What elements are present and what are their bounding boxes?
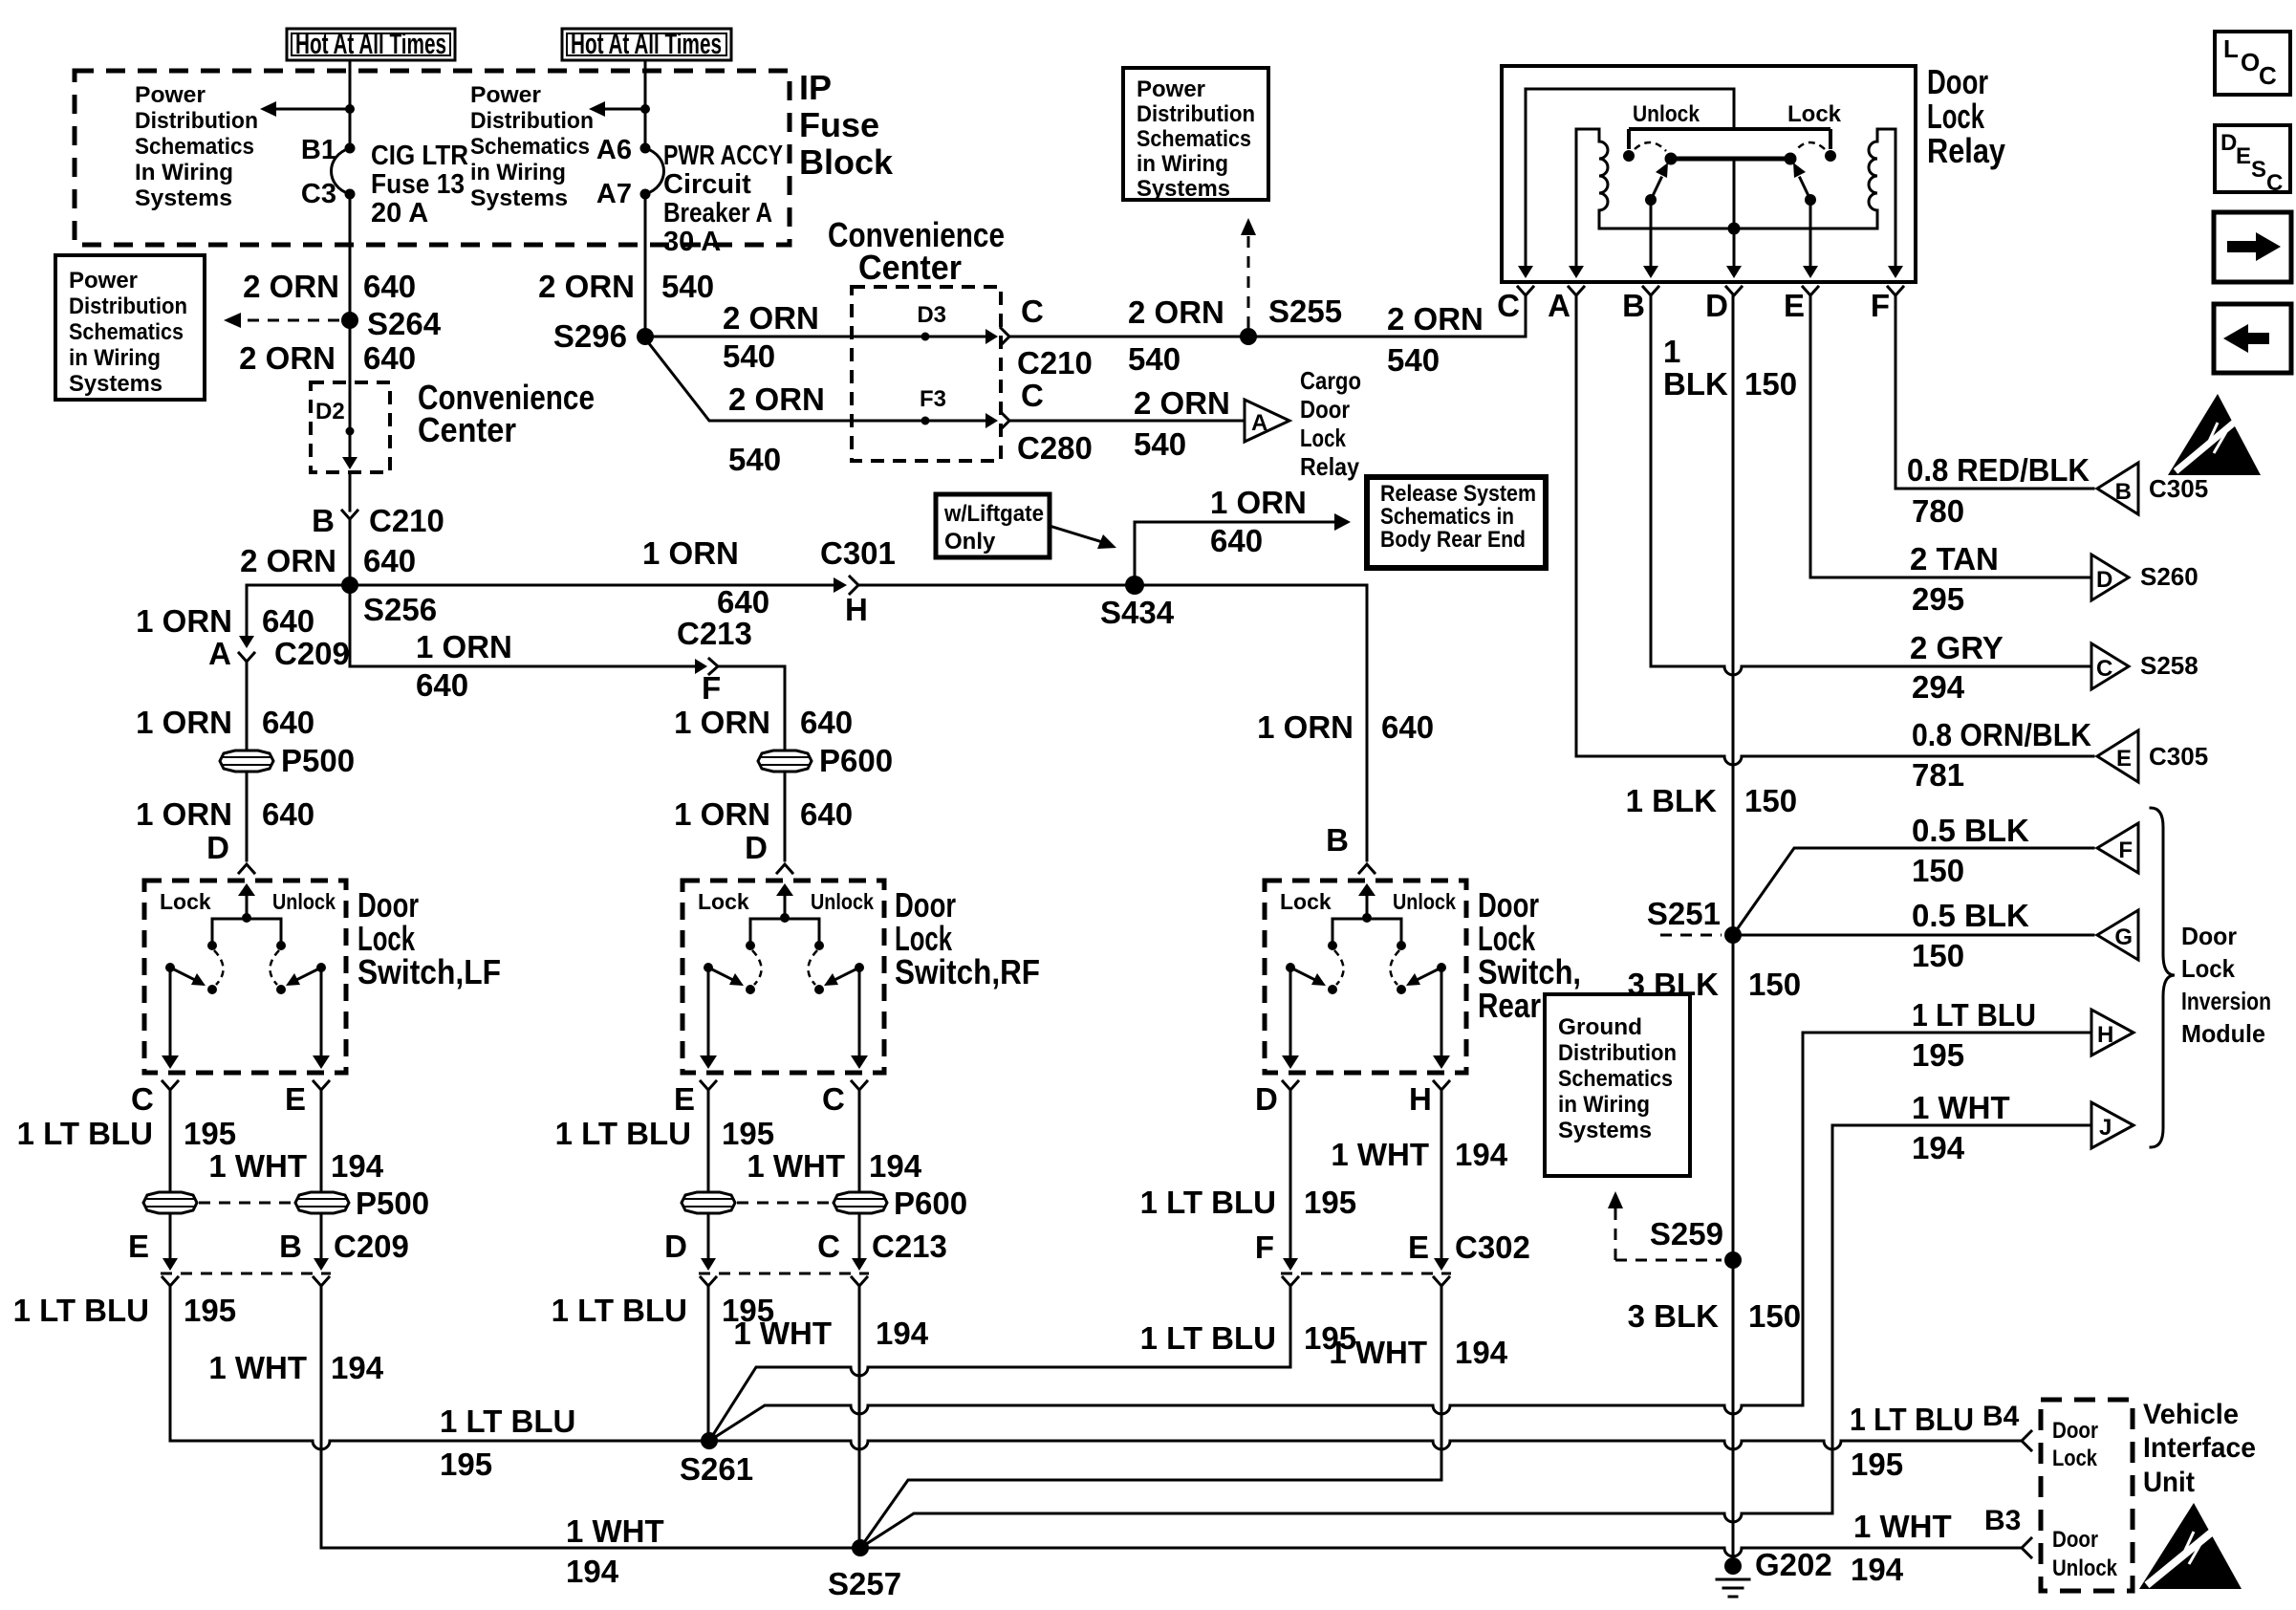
svg-text:E: E xyxy=(285,1081,306,1117)
wire S296 diagonal to convenience center F3 xyxy=(648,342,992,421)
long wire continues to B3 xyxy=(869,1548,2022,1556)
svg-text:540: 540 xyxy=(723,338,775,374)
wire LF C pin down xyxy=(169,1090,172,1192)
label 3 BLK 150 (below S259) xyxy=(1628,1298,1801,1334)
svg-text:194: 194 xyxy=(1851,1552,1904,1587)
svg-text:150: 150 xyxy=(1744,366,1797,402)
svg-text:195: 195 xyxy=(184,1293,236,1328)
wire P500 to C209 (left) xyxy=(169,1213,172,1258)
svg-text:P600: P600 xyxy=(894,1186,967,1221)
svg-text:640: 640 xyxy=(262,603,314,639)
svg-text:2 ORN: 2 ORN xyxy=(723,300,819,336)
svg-text:640: 640 xyxy=(416,667,468,703)
label 1 WHT 194 (RF C above P600) xyxy=(747,1148,921,1184)
Release System Schematics in Body Rear End box xyxy=(1367,477,1546,568)
relay pin C internal wire xyxy=(1525,89,1527,270)
label 1 ORN 640 (above P500) xyxy=(136,705,314,740)
relay armature right arrow xyxy=(1793,163,1810,200)
dashed arrow S255 to Power Distribution Schematics xyxy=(1241,218,1256,328)
node on wire 1 xyxy=(345,104,355,114)
wire S296 to convenience center D3 xyxy=(654,336,992,338)
dashed stub at S251 xyxy=(1660,934,1722,937)
svg-text:F: F xyxy=(1871,288,1890,323)
wire S264 down to Convenience Center xyxy=(349,329,352,382)
connector C210 terminal B chevron xyxy=(342,511,357,519)
svg-text:1 WHT: 1 WHT xyxy=(1329,1335,1427,1370)
wire from Hot box 1 down to fuse xyxy=(349,60,352,148)
relay rail junction xyxy=(1728,223,1741,235)
svg-text:194: 194 xyxy=(876,1316,929,1351)
connector chevron at rear switch B xyxy=(1359,864,1375,873)
relay contact feed bar xyxy=(1629,129,1830,149)
svg-text:640: 640 xyxy=(1210,523,1263,558)
ground G202 xyxy=(1717,1557,1749,1597)
breaker terminal A6 xyxy=(640,143,651,154)
grommet P600 left lens xyxy=(682,1192,735,1213)
splice S434 xyxy=(1125,576,1144,595)
svg-text:1 LT BLU: 1 LT BLU xyxy=(13,1293,149,1328)
svg-text:A: A xyxy=(208,636,231,671)
svg-text:194: 194 xyxy=(331,1148,384,1184)
node on wire 2 xyxy=(640,104,650,114)
fuse 13 terminal B1 xyxy=(345,143,356,154)
svg-text:780: 780 xyxy=(1912,493,1964,529)
svg-text:150: 150 xyxy=(1744,783,1797,818)
svg-text:2 TAN: 2 TAN xyxy=(1910,541,1999,577)
svg-text:540: 540 xyxy=(1134,426,1186,462)
svg-text:S259: S259 xyxy=(1650,1216,1723,1251)
svg-text:3 BLK: 3 BLK xyxy=(1628,967,1720,1002)
svg-text:C213: C213 xyxy=(872,1229,947,1264)
svg-text:E: E xyxy=(2116,746,2132,772)
svg-text:Only: Only xyxy=(944,529,996,555)
wire C209-B down to long WHT line xyxy=(320,1286,323,1548)
wire corner down to rear door lock switch B xyxy=(1366,585,1369,860)
svg-text:O: O xyxy=(2241,48,2260,76)
wire S255 to relay pin C xyxy=(1257,297,1526,337)
arrow to Release System Schematics xyxy=(1334,513,1351,531)
svg-text:1 LT BLU: 1 LT BLU xyxy=(552,1293,687,1328)
LOC reference box xyxy=(2215,32,2290,95)
svg-text:2 GRY: 2 GRY xyxy=(1910,630,2004,665)
main wire S434 to corner xyxy=(1143,584,1367,587)
IP Fuse Block dashed box xyxy=(75,71,790,245)
svg-text:194: 194 xyxy=(1455,1335,1508,1370)
wire relay E to S260-D xyxy=(1810,295,2091,577)
Door Lock Relay box xyxy=(1502,66,1916,282)
wire S261 diagonal to rear D line xyxy=(709,1367,1290,1441)
svg-text:2 ORN: 2 ORN xyxy=(1128,294,1224,330)
svg-text:1 LT BLU: 1 LT BLU xyxy=(1850,1402,1974,1437)
relay pin D internal wire xyxy=(1733,159,1736,270)
svg-text:H: H xyxy=(1409,1081,1432,1117)
label 1 WHT 194 (below C302) xyxy=(1329,1335,1507,1370)
svg-text:2 ORN: 2 ORN xyxy=(240,543,336,578)
svg-text:D: D xyxy=(206,830,229,865)
relay bridge dot right xyxy=(1785,153,1797,165)
wire J vertical riser xyxy=(1831,1125,1834,1513)
svg-text:640: 640 xyxy=(262,796,314,832)
label 1 LT BLU 195 (RF E above P600) xyxy=(555,1116,774,1151)
svg-text:D: D xyxy=(664,1229,687,1264)
svg-text:S264: S264 xyxy=(367,306,442,341)
svg-text:C: C xyxy=(2266,170,2283,196)
connector G triangle xyxy=(2097,910,2138,960)
label 1 LT BLU 195 (rear D) xyxy=(1140,1185,1356,1220)
DESC reference box xyxy=(2215,125,2290,196)
wire breaker A7 to S296 xyxy=(644,194,647,330)
svg-text:1 WHT: 1 WHT xyxy=(733,1316,832,1351)
svg-text:640: 640 xyxy=(363,269,416,304)
wire rear D pin down xyxy=(1289,1090,1292,1258)
relay pin A bottom arrow xyxy=(1569,266,1584,278)
svg-text:C280: C280 xyxy=(1017,430,1093,466)
svg-text:C: C xyxy=(1021,294,1044,329)
node F3 xyxy=(921,417,930,425)
svg-text:C3: C3 xyxy=(301,179,336,209)
svg-text:F: F xyxy=(2118,838,2133,863)
svg-text:1 LT BLU: 1 LT BLU xyxy=(1140,1185,1276,1220)
wire C209 to P500 xyxy=(246,662,249,751)
svg-text:194: 194 xyxy=(331,1350,384,1385)
svg-text:C: C xyxy=(822,1081,845,1117)
svg-text:640: 640 xyxy=(800,796,853,832)
wire S251 to S259 xyxy=(1732,944,1735,1252)
connector E C305 triangle xyxy=(2097,730,2138,782)
svg-text:L: L xyxy=(2223,34,2239,63)
label 1 ORN 640 (C213 branch) xyxy=(416,629,512,703)
main wire C301 to S434 xyxy=(858,584,1128,587)
long wire continues to B4 xyxy=(718,1441,2022,1449)
grommet P500 left lens xyxy=(143,1192,197,1213)
svg-text:540: 540 xyxy=(1128,341,1180,377)
svg-text:C: C xyxy=(2259,61,2277,90)
relay pin B connector chevron xyxy=(1643,287,1658,295)
relay dashed arc right xyxy=(1795,142,1825,151)
connector A to Cargo Door Lock Relay xyxy=(1245,400,1289,442)
svg-text:H: H xyxy=(845,592,868,627)
wire RF C pin down xyxy=(858,1090,861,1192)
relay armature left arrow xyxy=(1651,163,1668,200)
wire S251 to G triangle xyxy=(1742,934,2093,937)
svg-text:A: A xyxy=(1251,410,1267,436)
wire H vertical riser xyxy=(1802,1033,1805,1405)
door lock switch LF xyxy=(144,881,346,1090)
svg-text:C: C xyxy=(131,1081,154,1117)
connector chevron at LF switch D xyxy=(239,864,254,873)
relay pin E connector chevron xyxy=(1803,287,1818,295)
svg-text:1 ORN: 1 ORN xyxy=(1257,709,1354,745)
svg-text:1: 1 xyxy=(1663,334,1680,369)
svg-text:S260: S260 xyxy=(2140,562,2199,591)
svg-text:B: B xyxy=(1326,822,1349,858)
svg-text:D: D xyxy=(745,830,768,865)
wire S251 to F triangle xyxy=(1733,848,2093,935)
svg-text:Center: Center xyxy=(858,248,962,287)
splice S255 xyxy=(1240,328,1257,345)
svg-text:C: C xyxy=(817,1229,840,1264)
label 1 LT BLU 195 (LF C above P500) xyxy=(17,1116,236,1151)
svg-text:S261: S261 xyxy=(680,1451,753,1487)
wire J corner to J triangle xyxy=(1832,1124,2091,1127)
node D2 xyxy=(346,427,355,436)
label 1 LT BLU 195 (below C209) xyxy=(13,1293,236,1328)
relay coil return rail xyxy=(1599,228,1877,230)
svg-text:640: 640 xyxy=(1381,709,1434,745)
svg-text:194: 194 xyxy=(1455,1137,1508,1172)
relay bridge dot left xyxy=(1665,153,1678,165)
svg-text:1 ORN: 1 ORN xyxy=(674,796,770,832)
label 1 ORN 640 (above P600) xyxy=(674,705,853,740)
svg-text:S257: S257 xyxy=(828,1566,901,1601)
svg-text:D: D xyxy=(2096,567,2112,593)
relay pin A connector chevron xyxy=(1569,287,1584,295)
svg-text:150: 150 xyxy=(1912,938,1964,973)
wire below convenience center to C210 xyxy=(349,472,352,511)
relay pin F bottom arrow xyxy=(1888,266,1903,278)
wire P500 to LF switch D xyxy=(246,772,249,860)
grommet P600 (feed wire) xyxy=(758,751,812,772)
svg-text:S256: S256 xyxy=(363,592,437,627)
wire P600 to C213 (right) xyxy=(858,1213,861,1258)
svg-text:D: D xyxy=(1705,288,1728,323)
Ground Distribution Schematics in Wiring Systems box xyxy=(1545,994,1690,1176)
svg-text:640: 640 xyxy=(363,340,416,376)
svg-text:1 ORN: 1 ORN xyxy=(674,705,770,740)
left arrow box xyxy=(2214,304,2291,373)
wire C302-F down to corner toward S261 xyxy=(1289,1286,1292,1367)
wire RF E pin down xyxy=(707,1090,710,1192)
svg-text:0.5 BLK: 0.5 BLK xyxy=(1912,813,2029,848)
wire C210 to S255 xyxy=(1009,336,1241,338)
svg-text:150: 150 xyxy=(1912,853,1964,888)
svg-text:640: 640 xyxy=(262,705,314,740)
svg-text:E: E xyxy=(674,1081,695,1117)
relay lock coil xyxy=(1869,129,1895,270)
svg-text:1 WHT: 1 WHT xyxy=(747,1148,845,1184)
svg-text:2 ORN: 2 ORN xyxy=(538,269,635,304)
connector F triangle xyxy=(2097,823,2138,873)
connector D S260 triangle xyxy=(2091,555,2129,600)
branch wire A / C209 from S256 xyxy=(247,585,350,636)
svg-text:C305: C305 xyxy=(2149,742,2208,771)
wire relay D to S251 xyxy=(1732,295,1735,927)
svg-text:B: B xyxy=(1622,288,1645,323)
label 2 ORN 540 (C280 branch) xyxy=(1134,385,1230,462)
label 1 WHT 194 (rear H) xyxy=(1331,1137,1507,1172)
relay pin E internal wire xyxy=(1809,200,1812,270)
svg-text:B: B xyxy=(279,1229,302,1264)
breaker terminal A7 xyxy=(640,189,651,200)
label 2 ORN 540 (D3 feed) xyxy=(723,300,819,374)
connector C302 inline xyxy=(1281,1258,1451,1286)
wire LF E pin down xyxy=(320,1090,323,1192)
svg-text:Hot At All Times: Hot At All Times xyxy=(295,27,446,60)
svg-text:150: 150 xyxy=(1748,1298,1801,1334)
svg-text:D2: D2 xyxy=(315,399,345,424)
svg-text:E: E xyxy=(128,1229,149,1264)
relay pin F connector chevron xyxy=(1888,287,1903,295)
relay dashed arc left xyxy=(1635,142,1666,151)
svg-text:540: 540 xyxy=(1387,342,1440,378)
wire C213 to P600 xyxy=(718,666,785,751)
dashed stub and arrow at S259 xyxy=(1608,1191,1722,1260)
svg-text:C302: C302 xyxy=(1455,1229,1530,1265)
ESD symbol (bottom right) xyxy=(2139,1503,2242,1589)
dashed link between P600 lenses xyxy=(737,1202,832,1205)
label 2 ORN 540 (F3 feed) xyxy=(728,381,825,477)
svg-text:C210: C210 xyxy=(1017,345,1093,381)
Hot At All Times label box 1 xyxy=(287,27,455,60)
door lock switch RF xyxy=(682,881,884,1090)
svg-text:540: 540 xyxy=(661,269,714,304)
relay pin B internal wire xyxy=(1650,200,1653,270)
relay bridge bar xyxy=(1671,157,1790,162)
connector C S258 triangle xyxy=(2091,643,2129,689)
wire S257 diagonal to rear H line xyxy=(860,1480,1441,1548)
svg-text:194: 194 xyxy=(869,1148,922,1184)
svg-text:F: F xyxy=(1255,1229,1274,1265)
relay released contact left xyxy=(1623,150,1635,162)
svg-text:Hot At All Times: Hot At All Times xyxy=(571,27,722,60)
svg-text:1 ORN: 1 ORN xyxy=(136,705,232,740)
svg-text:195: 195 xyxy=(1912,1037,1964,1073)
wire S257 diagonal to J riser xyxy=(860,1513,1832,1548)
svg-text:Lock: Lock xyxy=(1787,101,1842,127)
svg-text:1 ORN: 1 ORN xyxy=(642,535,739,571)
wire C209-E down to long LT BLU line xyxy=(169,1286,172,1441)
wire relay B to S258-C xyxy=(1651,295,2091,675)
svg-text:B: B xyxy=(312,503,335,538)
svg-text:1 WHT: 1 WHT xyxy=(208,1148,307,1184)
svg-text:781: 781 xyxy=(1912,757,1964,793)
label 1 ORN 640 (below P500) xyxy=(136,796,314,832)
svg-text:P600: P600 xyxy=(819,743,893,778)
svg-text:195: 195 xyxy=(184,1116,236,1151)
svg-text:D3: D3 xyxy=(917,302,946,328)
label 1 ORN 640 (below P600) xyxy=(674,796,853,832)
svg-text:D: D xyxy=(1255,1081,1278,1117)
splice S256 xyxy=(341,577,358,594)
svg-text:C305: C305 xyxy=(2149,474,2208,503)
svg-text:P500: P500 xyxy=(281,743,355,778)
svg-text:295: 295 xyxy=(1912,581,1964,617)
svg-text:S251: S251 xyxy=(1647,896,1721,931)
main wire S256 to C301 xyxy=(358,584,839,587)
label 1 WHT 194 (S257 wire) xyxy=(733,1316,928,1351)
svg-text:195: 195 xyxy=(1304,1185,1356,1220)
wire C213-D down to S261 xyxy=(707,1286,710,1434)
wire P600 to RF switch D xyxy=(784,772,787,860)
svg-text:S296: S296 xyxy=(553,318,627,354)
relay pin D bottom arrow xyxy=(1726,266,1742,278)
svg-text:195: 195 xyxy=(440,1447,492,1482)
svg-text:195: 195 xyxy=(1851,1447,1903,1482)
wire from Hot box 2 down to breaker xyxy=(644,60,647,148)
label 2 ORN 640 above S256 xyxy=(240,543,416,578)
splice S257 xyxy=(852,1539,869,1556)
svg-text:S: S xyxy=(2251,157,2266,183)
relay armature right pivot xyxy=(1805,194,1816,206)
svg-text:A6: A6 xyxy=(596,135,632,165)
svg-text:Unlock: Unlock xyxy=(1633,101,1700,127)
label 1 ORN 640 (rear switch feed) xyxy=(1257,709,1434,745)
label 1 WHT 194 (LF E above P500) xyxy=(208,1148,383,1184)
branch wire to C213 from S256 xyxy=(350,585,697,666)
svg-text:194: 194 xyxy=(1912,1130,1965,1165)
relay unlock coil xyxy=(1576,129,1608,270)
svg-text:S434: S434 xyxy=(1100,595,1175,630)
svg-text:2 ORN: 2 ORN xyxy=(1134,385,1230,421)
svg-text:1 LT BLU: 1 LT BLU xyxy=(1140,1320,1276,1356)
connector C301 xyxy=(834,577,858,594)
label 1 LT BLU 195 (below C213) xyxy=(552,1293,774,1328)
connector B C305 triangle xyxy=(2097,463,2138,514)
svg-text:G: G xyxy=(2114,925,2133,950)
Hot At All Times label box 2 xyxy=(562,27,731,60)
wire C213-C down to S257 xyxy=(858,1286,861,1541)
svg-text:B: B xyxy=(2115,479,2132,505)
svg-text:1 LT BLU: 1 LT BLU xyxy=(440,1403,575,1439)
label 2 ORN 640 below S264 xyxy=(239,340,416,376)
svg-text:B4: B4 xyxy=(1982,1401,2020,1432)
svg-text:1 LT BLU: 1 LT BLU xyxy=(17,1116,153,1151)
svg-text:S258: S258 xyxy=(2140,651,2199,680)
grommet P500 right lens xyxy=(295,1192,349,1213)
svg-text:1 ORN: 1 ORN xyxy=(136,603,232,639)
svg-text:C301: C301 xyxy=(820,535,896,571)
grommet P500 (feed wire) xyxy=(220,751,273,772)
svg-text:2 ORN: 2 ORN xyxy=(1387,301,1484,337)
svg-text:1 ORN: 1 ORN xyxy=(1210,485,1307,520)
svg-text:1 BLK: 1 BLK xyxy=(1626,783,1718,818)
wire C280 to cargo relay xyxy=(1009,420,1243,423)
dashed arrow from S264 to Power Distribution box xyxy=(224,313,339,328)
label 1 BLK 150 (relay D top) xyxy=(1663,334,1797,402)
svg-text:S255: S255 xyxy=(1268,294,1342,329)
svg-text:640: 640 xyxy=(800,705,853,740)
svg-text:640: 640 xyxy=(717,584,769,620)
svg-text:C: C xyxy=(2096,656,2112,682)
connector C213 terminal F xyxy=(695,659,718,674)
svg-text:1 ORN: 1 ORN xyxy=(416,629,512,664)
svg-text:B1: B1 xyxy=(301,135,336,165)
svg-text:BLK: BLK xyxy=(1663,366,1728,402)
label 2 ORN 640 above S264 xyxy=(243,269,416,304)
connector H triangle xyxy=(2091,1010,2134,1055)
svg-text:F3: F3 xyxy=(920,386,946,412)
label 2 ORN 540 above S296 xyxy=(538,269,714,304)
node D3 xyxy=(921,333,930,341)
svg-text:0.8 ORN/BLK: 0.8 ORN/BLK xyxy=(1912,717,2091,752)
relay pin E bottom arrow xyxy=(1803,266,1818,278)
svg-text:1 WHT: 1 WHT xyxy=(1331,1137,1429,1172)
wire S434 up to liftgate branch xyxy=(1135,522,1334,577)
Power Distribution Schematics in Wiring Systems box (left) xyxy=(55,255,205,400)
svg-text:1 WHT: 1 WHT xyxy=(566,1513,664,1549)
label 2 ORN 540 (S255 to relay) xyxy=(1387,301,1484,378)
svg-text:1 LT BLU: 1 LT BLU xyxy=(1912,997,2036,1033)
relay internal feed bus xyxy=(1526,89,1734,129)
wire C210 to S256 xyxy=(349,519,352,577)
svg-text:0.8 RED/BLK: 0.8 RED/BLK xyxy=(1907,452,2090,488)
wire S261 diagonal to H riser xyxy=(709,1405,1803,1441)
svg-text:C: C xyxy=(1021,378,1044,413)
right arrow box xyxy=(2214,212,2291,282)
wire H corner to H triangle xyxy=(1803,1032,2091,1034)
connector J triangle xyxy=(2091,1102,2134,1148)
w/Liftgate Only box xyxy=(936,494,1050,557)
